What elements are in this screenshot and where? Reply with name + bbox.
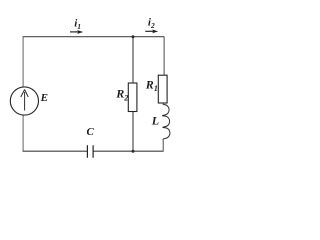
wire right branch vertical	[162, 37, 165, 152]
wire bottom left segment (to capacitor left plate)	[23, 150, 87, 152]
svg-text:C: C	[87, 126, 95, 138]
current arrow i2	[145, 30, 158, 34]
svg-text:E: E	[40, 92, 48, 104]
source E (circle with upward arrow)	[10, 87, 38, 115]
resistor R1	[158, 75, 167, 103]
inductor L (coil of 3 loops)	[162, 105, 170, 141]
wire bottom right segment (capacitor right plate to bottom-right corner)	[93, 150, 163, 152]
svg-text:L: L	[151, 114, 159, 128]
wire left vertical	[22, 37, 24, 152]
junction dot bottom (middle branch / bottom wire)	[132, 150, 135, 153]
capacitor C plates	[87, 145, 93, 157]
current arrow i1	[70, 30, 83, 34]
wire top: from left corner to top-right corner	[23, 36, 165, 38]
junction dot top (middle branch / top wire)	[132, 35, 135, 38]
resistor R2	[128, 83, 137, 112]
wire middle branch vertical	[132, 37, 134, 152]
